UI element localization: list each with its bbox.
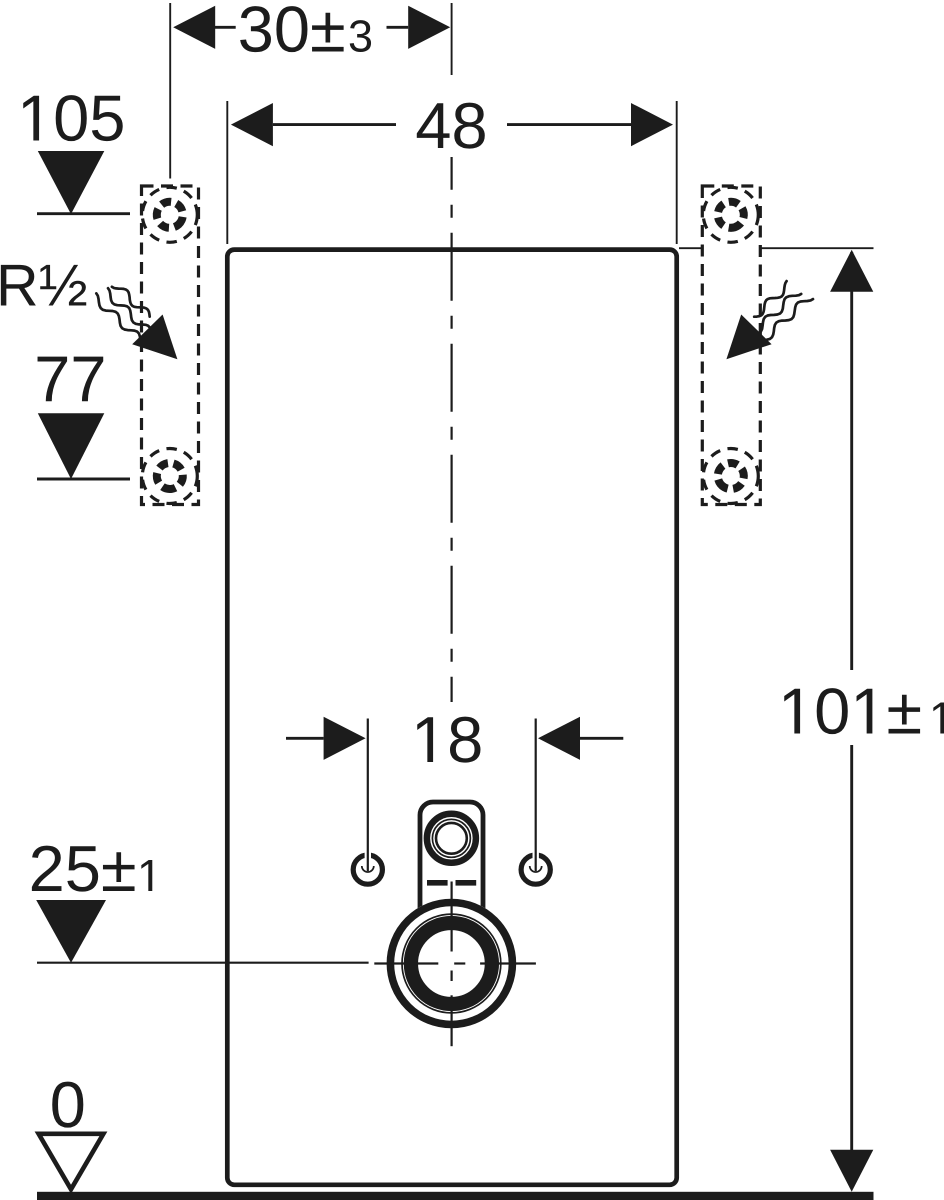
fitting rings xyxy=(427,814,476,863)
screw top-left xyxy=(142,187,197,242)
dimension 18 xyxy=(286,717,623,763)
wall anchor plate left (dashed) xyxy=(142,186,199,505)
crosshair vertical xyxy=(451,882,453,1047)
fixing hole left xyxy=(353,719,382,885)
drain socket (big circle) xyxy=(387,899,517,1029)
label 48 xyxy=(417,103,485,149)
dim line + arrows 18 xyxy=(286,737,324,740)
ext line left of 30±3 xyxy=(169,3,171,179)
flow arrow right xyxy=(726,315,771,360)
dim line + arrows 48 xyxy=(273,123,396,126)
water flow waves right xyxy=(753,281,814,340)
label 30±3 xyxy=(240,6,343,52)
datum 105 xyxy=(23,95,130,214)
water flow waves left xyxy=(96,287,151,340)
fitting bracket (water supply) xyxy=(420,802,483,930)
fitting clamp dashes xyxy=(427,880,448,886)
ext lines 48 xyxy=(226,101,228,244)
label 18 xyxy=(417,717,480,763)
flow arrow left xyxy=(132,315,177,360)
extension line for 101 dimension (top, behind right anchor plate) xyxy=(679,247,874,249)
datum 25±1 xyxy=(32,846,369,963)
dim line + arrows 30±3 xyxy=(215,26,236,29)
screw bottom-left xyxy=(142,449,197,504)
datum 77 xyxy=(37,357,130,479)
screw top-right xyxy=(703,187,758,242)
floor bar xyxy=(37,1192,874,1200)
screw bottom-right xyxy=(703,449,758,504)
dimension 101±1 (vertical) xyxy=(784,250,944,1192)
datum 0 (floor level) xyxy=(39,1082,104,1190)
crosshair horizontal xyxy=(374,962,536,964)
centre line (vertical dash-dot axis) xyxy=(451,3,453,75)
label R1/2 water connection xyxy=(1,265,86,306)
panel: sanitary module outline xyxy=(227,250,676,1185)
wall anchor plate right (dashed) xyxy=(702,186,760,505)
dimension 30±3 xyxy=(170,3,450,179)
dimension 48 xyxy=(227,101,676,244)
fixing hole right xyxy=(521,719,550,885)
